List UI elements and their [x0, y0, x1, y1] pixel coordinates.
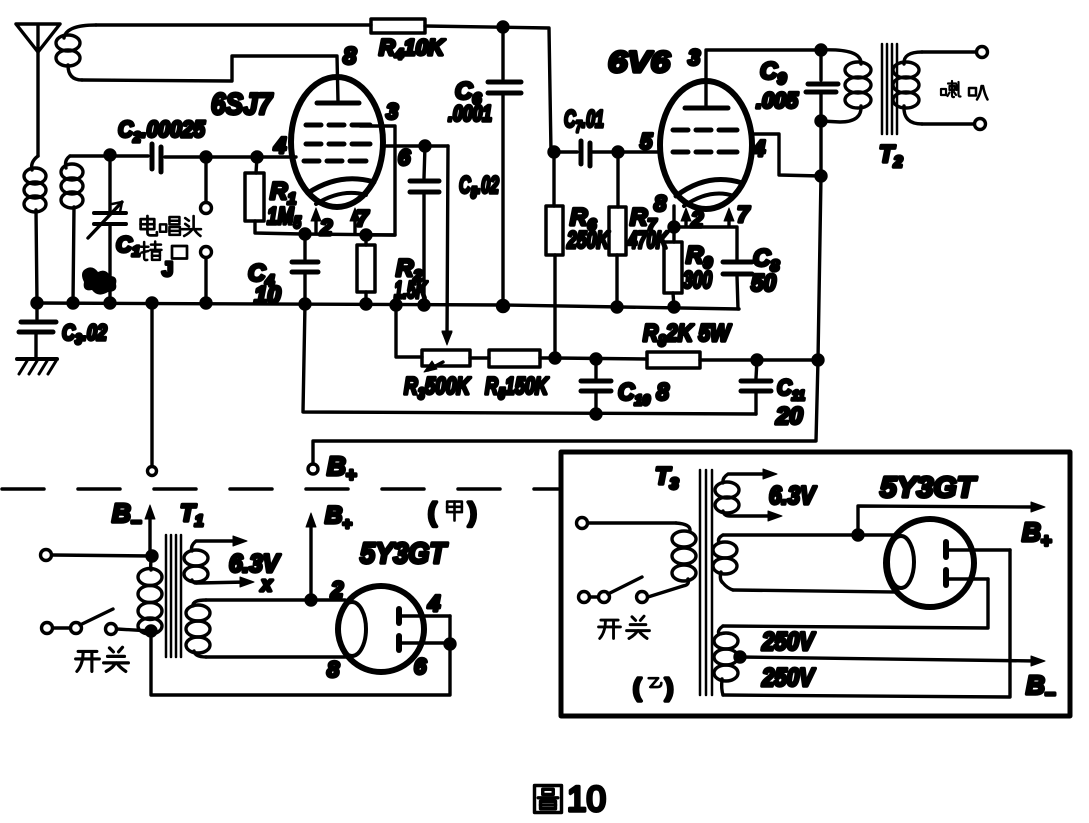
arrow B- up: [148, 514, 151, 556]
speaker terminal bottom: [975, 119, 986, 130]
svg-text:8: 8: [327, 657, 340, 682]
T2 secondary coil: [893, 52, 922, 124]
node C7 left: [549, 147, 559, 157]
svg-text:T3: T3: [655, 463, 679, 493]
node bus C1: [105, 298, 115, 308]
wire speaker bottom: [922, 122, 974, 125]
T1 core: [166, 535, 181, 657]
svg-text:C1: C1: [116, 232, 140, 260]
coil T3 primary: [672, 523, 696, 586]
label chakou (jack): [141, 242, 161, 261]
T2 primary coil: [820, 50, 871, 122]
svg-text:C5.02: C5.02: [459, 172, 499, 202]
terminal mains top: [41, 550, 52, 561]
wire grid-cap 6SJ7: [82, 56, 338, 101]
6SJ7 grid dashes row3: [304, 159, 366, 164]
svg-text:10: 10: [567, 780, 606, 819]
terminal to power: [148, 467, 157, 476]
node bus C4: [300, 299, 310, 309]
coil L3 top left: [56, 25, 96, 80]
wire filament bottom into tube: [733, 590, 897, 592]
terminal mains bottom: [42, 623, 53, 634]
ink blob defect: [82, 267, 116, 294]
capacitor C6: [488, 27, 521, 303]
svg-text:): ): [665, 674, 673, 702]
pin7 arrow 6V6: [727, 214, 730, 226]
coil T1 6.3V winding: [184, 536, 254, 587]
label kaiguan (switch): [76, 651, 100, 671]
node R9 top: [669, 222, 679, 232]
6V6 top cap bar: [685, 106, 728, 111]
svg-text:2: 2: [330, 577, 344, 602]
wire cathode node 6V6: [674, 227, 737, 260]
svg-text:6.3V: 6.3V: [769, 482, 817, 510]
T3 core: [700, 470, 712, 695]
svg-text:B+: B+: [327, 451, 357, 485]
wire speaker top: [922, 50, 976, 53]
node bus L1: [32, 298, 42, 308]
svg-text:8: 8: [654, 191, 667, 216]
svg-text:R3500K: R3500K: [404, 373, 471, 403]
svg-text:R82K 5W: R82K 5W: [643, 320, 732, 350]
coil T1 HV winding: [186, 600, 210, 657]
svg-text:R5150K: R5150K: [485, 373, 549, 403]
svg-text:50: 50: [751, 270, 777, 297]
node rail C10: [591, 409, 601, 419]
wire mains top yi: [588, 521, 676, 524]
svg-text:(: (: [428, 497, 437, 527]
6V6 grid dashes row2: [673, 150, 737, 155]
node B+ takeoff: [306, 595, 316, 605]
tube 6SJ7 envelope: [291, 77, 383, 207]
wire grid line: [70, 154, 148, 157]
svg-text:5Y3GT: 5Y3GT: [880, 472, 977, 504]
svg-text:1M5: 1M5: [267, 203, 301, 232]
capacitor C3: [19, 303, 56, 357]
wire pin6 line: [384, 144, 448, 147]
svg-text:2: 2: [319, 215, 333, 240]
wire plate1 to HV bottom: [723, 550, 1010, 697]
antenna: [16, 24, 60, 156]
label dianchangtou (phono head): [141, 216, 157, 235]
coil T3 6.3V winding: [715, 469, 782, 521]
wire cathode node line: [302, 234, 395, 235]
svg-text:250V: 250V: [761, 628, 816, 656]
ground: [17, 359, 57, 374]
svg-text:6.3V: 6.3V: [229, 550, 281, 578]
node bus L2: [68, 298, 78, 308]
svg-text:7: 7: [737, 202, 751, 227]
svg-text:C10 8: C10 8: [618, 379, 670, 409]
wire grid to R1: [206, 155, 296, 158]
node R5 right: [550, 353, 560, 363]
wire bus drop to switch point: [150, 303, 153, 465]
node C1 top: [105, 150, 115, 160]
coil L1 antenna primary: [24, 156, 46, 303]
svg-text:6V6: 6V6: [608, 46, 670, 79]
node bus R9: [669, 302, 679, 312]
switch S1: [53, 609, 151, 635]
svg-text:6: 6: [414, 654, 427, 679]
svg-text:4: 4: [273, 133, 286, 158]
node C9 top: [816, 45, 826, 55]
6SJ7 grid dashes row1: [306, 123, 370, 128]
node C10 top: [591, 354, 601, 364]
svg-text:C3.02: C3.02: [62, 320, 108, 348]
node bus C6: [498, 301, 509, 312]
coil T1 primary: [138, 556, 162, 634]
resistor R4: [371, 19, 425, 33]
svg-text:5: 5: [640, 129, 653, 154]
5Y3 jia plate 2: [399, 636, 450, 650]
svg-text:C11: C11: [777, 375, 805, 403]
6SJ7 cathode arcs: [308, 179, 374, 193]
svg-text:4: 4: [427, 591, 440, 616]
node rail right: [813, 355, 823, 365]
terminal mains bottom yi: [579, 592, 590, 603]
tube 6V6 envelope: [660, 81, 752, 209]
tube 5Y3GT jia envelope: [338, 586, 424, 672]
coil L2 secondary: [61, 156, 83, 303]
svg-text:6SJ7: 6SJ7: [211, 88, 273, 121]
node T2 primary bottom: [816, 116, 826, 126]
svg-text:T2: T2: [879, 141, 903, 171]
svg-text:3: 3: [688, 45, 700, 70]
node bus R2: [361, 299, 371, 309]
node B+ takeoff yi: [853, 530, 863, 540]
coil T3 filament winding: [713, 535, 737, 590]
node R8 right: [752, 355, 762, 365]
potentiometer R3: [396, 305, 470, 372]
label laba (speaker): [941, 81, 961, 97]
5Y3 yi plate 1: [946, 542, 1010, 557]
tube 5Y3GT yi envelope: [886, 519, 974, 607]
label kaiguan yi: [599, 620, 621, 638]
wire B+ arrow yi: [858, 506, 1036, 535]
speaker terminal top: [977, 47, 988, 58]
wire pin4 to C9 node: [751, 134, 821, 176]
svg-text:C9: C9: [760, 58, 786, 88]
pin7 arrow 6SJ7: [353, 214, 356, 233]
terminal mains top yi: [577, 518, 588, 529]
svg-text:3: 3: [386, 99, 398, 124]
dashed separator line: [2, 487, 558, 491]
svg-text:5Y3GT: 5Y3GT: [360, 538, 448, 570]
svg-text:(: (: [633, 674, 642, 702]
svg-text:): ): [468, 497, 477, 527]
svg-text:T1: T1: [180, 500, 204, 530]
arrow B+ up: [309, 522, 312, 600]
svg-text:300: 300: [683, 267, 712, 294]
caption tu 10: [535, 786, 562, 813]
svg-text:B−: B−: [112, 498, 142, 532]
pin2 arrow 6V6: [684, 214, 687, 226]
switch S2: [590, 577, 683, 603]
capacitor C10: [581, 359, 611, 414]
5Y3 jia filament ellipse: [338, 602, 366, 656]
node C5 top: [420, 141, 430, 151]
wire plate2 to HV top: [723, 579, 988, 628]
svg-text:C7.01: C7.01: [564, 106, 604, 136]
node R7 top: [613, 147, 623, 157]
node C6 top: [498, 22, 508, 32]
node R1 top: [252, 152, 262, 162]
5Y3 yi plate 2: [946, 570, 988, 585]
wire top bus left: [96, 23, 371, 26]
resistor R1: [245, 157, 302, 234]
capacitor C5: [410, 146, 439, 303]
node T1 primary top: [147, 551, 157, 561]
svg-text:20: 20: [775, 403, 803, 430]
coil T3 HV winding: [714, 626, 738, 695]
5Y3 jia plate 1: [399, 609, 450, 623]
resistor R2: [357, 235, 375, 303]
wire pin8 to cathode node: [672, 206, 675, 227]
5Y3 yi filament ellipse: [888, 536, 914, 588]
capacitor C1 variable: [88, 155, 126, 303]
wire pin3 to cathode node: [360, 126, 395, 235]
resistor R6: [546, 152, 563, 358]
svg-text:6: 6: [398, 145, 411, 170]
6V6 grid dashes row1: [673, 128, 737, 133]
svg-text:C2.00025: C2.00025: [118, 116, 206, 146]
capacitor C11: [741, 360, 771, 414]
node bus C5: [419, 300, 429, 310]
svg-text:R410K: R410K: [379, 35, 446, 63]
terminal B+: [308, 464, 318, 474]
svg-text:.0001: .0001: [448, 101, 492, 126]
svg-text:B+: B+: [325, 502, 352, 533]
svg-text:4: 4: [752, 136, 765, 161]
svg-text:x: x: [260, 574, 273, 596]
svg-text:2: 2: [690, 207, 704, 232]
capacitor C4: [292, 234, 318, 303]
node jack top: [201, 152, 211, 162]
wire B- arrow yi: [740, 657, 1036, 661]
svg-text:8: 8: [343, 43, 357, 70]
node bus switch lead: [147, 298, 157, 308]
resistor R5: [470, 350, 555, 367]
svg-text:B−: B−: [1026, 670, 1056, 704]
wire top bus right: [425, 26, 551, 152]
wire ground bus: [35, 303, 739, 309]
wire mains top: [52, 555, 152, 556]
wire C9 down to R8: [313, 121, 821, 464]
6SJ7 top cap bar: [317, 101, 359, 106]
node bus jack: [201, 298, 211, 308]
node R2 top: [361, 230, 371, 240]
wire plates return rail: [151, 616, 450, 695]
node bus R3 lead: [391, 300, 401, 310]
svg-text:B+: B+: [1022, 517, 1052, 551]
capacitor C7: [554, 141, 661, 166]
node HV center tap: [735, 652, 745, 662]
wire HV bottom to pin8: [206, 655, 350, 658]
6V6 cathode arcs: [676, 180, 742, 196]
wire 6V6 top cap to T2: [706, 50, 820, 108]
node pin4 joint: [816, 171, 826, 181]
capacitor C2: [152, 144, 203, 172]
capacitor C8: [723, 262, 752, 309]
node T1 primary bottom: [146, 626, 156, 636]
frame yi box: [561, 452, 1070, 716]
wire B+ rail row: [555, 358, 818, 360]
wire HV top to pin2: [206, 598, 345, 601]
wire ground return rail: [303, 304, 756, 414]
capacitor C9: [806, 50, 838, 121]
resistor R7: [609, 152, 626, 303]
resistor R9: [664, 227, 682, 307]
wire feedback to R3 wiper: [447, 146, 448, 338]
svg-text:.005: .005: [756, 88, 799, 113]
svg-text:250V: 250V: [761, 664, 816, 692]
svg-text:250K: 250K: [566, 227, 610, 254]
T2 core: [882, 44, 897, 134]
node bus R7: [612, 302, 622, 312]
6SJ7 grid dashes row2: [306, 142, 370, 147]
node plates join: [445, 639, 455, 649]
jack J terminals: [201, 161, 212, 303]
pin2 arrow 6SJ7: [314, 214, 317, 233]
wire filament top into tube: [723, 533, 896, 536]
resistor R8: [647, 352, 700, 368]
node C4 top: [300, 229, 310, 239]
svg-text:J: J: [162, 259, 173, 281]
